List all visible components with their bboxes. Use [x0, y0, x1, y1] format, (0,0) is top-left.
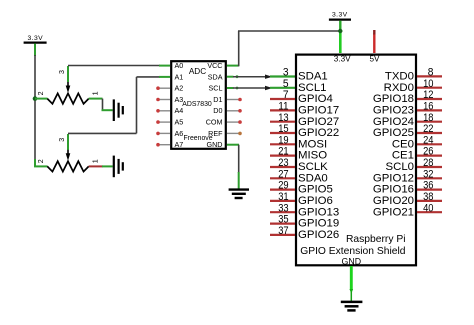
svg-text:A0: A0 [175, 61, 184, 70]
pin 7 GPIO4 [270, 89, 333, 105]
pin 21 MISO [270, 146, 327, 162]
pin 26 CE1 [392, 146, 442, 162]
svg-text:GPIO5: GPIO5 [298, 184, 333, 196]
svg-text:33: 33 [278, 202, 288, 214]
svg-text:A2: A2 [175, 84, 184, 93]
svg-text:24: 24 [423, 134, 433, 146]
pin A0 [175, 61, 184, 70]
svg-text:26: 26 [423, 146, 433, 158]
pin 28 SCL0 [386, 157, 443, 173]
wire shield GND to ground [350, 266, 354, 301]
svg-text:ADC: ADC [189, 67, 206, 76]
node junction on 3.3V rail [33, 96, 38, 101]
svg-text:GPIO12: GPIO12 [373, 172, 414, 184]
pin A3 [156, 95, 183, 104]
svg-text:38: 38 [423, 191, 433, 203]
wire pot1 pin1 to ground [89, 99, 113, 111]
svg-text:GPIO19: GPIO19 [298, 218, 339, 230]
svg-text:GPIO4: GPIO4 [298, 93, 333, 105]
svg-text:SDA0: SDA0 [298, 172, 328, 184]
svg-text:A4: A4 [175, 106, 184, 115]
svg-text:5V: 5V [369, 55, 380, 64]
svg-text:28: 28 [423, 157, 433, 169]
svg-text:GPIO17: GPIO17 [298, 105, 339, 117]
svg-text:COM: COM [206, 118, 223, 127]
pin 10 RXD0 [384, 78, 442, 94]
wire pot2 wiper to ADC A1 [68, 77, 170, 150]
svg-text:GPIO23: GPIO23 [373, 105, 414, 117]
wire 5V stub (unconnected) [373, 30, 375, 53]
svg-text:MISO: MISO [298, 150, 327, 162]
ground (shield) [341, 302, 363, 311]
svg-text:A7: A7 [175, 140, 184, 149]
pin 19 MOSI [270, 134, 327, 150]
wire pot1 wiper to ADC A0 [68, 66, 170, 83]
svg-text:SCL0: SCL0 [386, 161, 415, 173]
pin 35 GPIO19 [270, 214, 339, 230]
svg-text:GPIO18: GPIO18 [373, 93, 414, 105]
wire ADC VCC to 3.3V junction above shield [227, 31, 340, 66]
svg-text:D1: D1 [213, 95, 222, 104]
svg-text:GPIO25: GPIO25 [373, 127, 414, 139]
svg-text:GPIO27: GPIO27 [298, 116, 339, 128]
svg-text:1: 1 [91, 91, 100, 95]
pin 33 GPIO13 [270, 202, 339, 218]
wire junction to pot1 pin 2 [35, 98, 48, 100]
potentiometer R1 (top) [36, 70, 100, 104]
svg-text:A6: A6 [175, 129, 184, 138]
svg-text:TXD0: TXD0 [385, 71, 414, 83]
pin SCL [209, 84, 223, 93]
svg-text:D0: D0 [213, 106, 222, 115]
svg-text:13: 13 [278, 112, 288, 124]
wire ADC SCL to shield SCL1 [227, 86, 295, 90]
svg-text:40: 40 [423, 202, 433, 214]
power symbol 3.3V (left) [24, 35, 47, 43]
svg-text:GPIO16: GPIO16 [373, 184, 414, 196]
svg-text:5: 5 [283, 78, 289, 90]
pin 38 GPIO20 [373, 191, 442, 207]
pin 31 GPIO6 [270, 191, 333, 207]
svg-text:7: 7 [283, 89, 289, 101]
svg-text:SCL: SCL [209, 84, 223, 93]
pin 15 GPIO22 [270, 123, 339, 139]
ground (ADC) [229, 190, 249, 198]
svg-text:SDA: SDA [208, 72, 223, 81]
svg-text:A3: A3 [175, 95, 184, 104]
IC U1 ADS7830 ADC body [171, 61, 226, 149]
svg-text:GPIO21: GPIO21 [373, 206, 414, 218]
pin A6 [156, 129, 183, 138]
svg-text:3: 3 [57, 138, 66, 142]
pin 11 GPIO17 [270, 101, 339, 117]
pin 5 SCL1 [283, 78, 327, 94]
pin A4 [156, 106, 183, 115]
svg-text:31: 31 [278, 191, 288, 203]
node junction 3.3V above shield [338, 29, 342, 33]
svg-text:16: 16 [423, 101, 433, 113]
wire 3.3V rail down to pot2 [34, 44, 48, 167]
svg-text:SDA1: SDA1 [298, 71, 328, 83]
svg-text:VCC: VCC [207, 61, 222, 70]
svg-text:2: 2 [36, 91, 45, 95]
pin GND [207, 140, 223, 149]
wire ADC GND to ground [227, 145, 239, 189]
svg-text:CE0: CE0 [392, 138, 414, 150]
svg-text:GPIO22: GPIO22 [298, 127, 339, 139]
svg-text:A5: A5 [175, 118, 184, 127]
svg-text:15: 15 [278, 123, 288, 135]
pin 27 SDA0 [270, 168, 328, 184]
pin D1 [213, 95, 242, 104]
svg-text:35: 35 [278, 214, 288, 226]
svg-text:21: 21 [278, 146, 288, 158]
svg-text:GPIO20: GPIO20 [373, 195, 414, 207]
svg-text:GPIO6: GPIO6 [298, 195, 333, 207]
svg-text:REF: REF [208, 129, 223, 138]
svg-text:10: 10 [423, 78, 433, 90]
pin 23 SCLK [270, 157, 328, 173]
svg-text:GPIO13: GPIO13 [298, 206, 339, 218]
svg-text:11: 11 [278, 101, 288, 113]
pin REF [208, 129, 242, 138]
wire pot2 pin1 to ground (red) [89, 165, 113, 167]
svg-text:1: 1 [91, 159, 100, 163]
svg-text:23: 23 [278, 157, 288, 169]
wire 3.3V symbol to shield 3.3V pin [339, 21, 341, 53]
svg-text:GND: GND [342, 256, 362, 266]
svg-text:3: 3 [57, 70, 66, 74]
pin 24 CE0 [392, 134, 442, 150]
pin 12 GPIO18 [373, 89, 442, 105]
power symbol 3.3V (above shield) [329, 12, 351, 20]
svg-text:GND: GND [207, 140, 223, 149]
svg-text:36: 36 [423, 180, 433, 192]
pin A1 [175, 72, 184, 81]
ground (pot2) [114, 156, 123, 178]
svg-text:18: 18 [423, 112, 433, 124]
svg-text:3.3V: 3.3V [332, 12, 348, 19]
svg-text:SCLK: SCLK [298, 161, 328, 173]
pin 22 GPIO25 [373, 123, 442, 139]
svg-text:12: 12 [423, 89, 433, 101]
pin 29 GPIO5 [270, 180, 333, 196]
pin 13 GPIO27 [270, 112, 339, 128]
svg-text:3: 3 [283, 67, 289, 79]
svg-text:MOSI: MOSI [298, 138, 327, 150]
pin 40 GPIO21 [373, 202, 442, 218]
svg-text:CE1: CE1 [392, 150, 414, 162]
svg-text:SCL1: SCL1 [298, 82, 327, 94]
pin 8 TXD0 [385, 67, 442, 83]
pin SDA [208, 72, 223, 81]
svg-text:3.3V: 3.3V [28, 35, 44, 42]
svg-text:29: 29 [278, 180, 288, 192]
pin 36 GPIO16 [373, 180, 442, 196]
wire ADC SDA to shield SDA1 [227, 75, 295, 79]
svg-text:3.3V: 3.3V [334, 55, 351, 64]
svg-text:8: 8 [428, 67, 434, 79]
svg-text:37: 37 [278, 225, 288, 237]
svg-text:GPIO24: GPIO24 [373, 116, 414, 128]
svg-text:27: 27 [278, 168, 288, 180]
svg-text:RXD0: RXD0 [384, 82, 414, 94]
pin 32 GPIO12 [373, 168, 442, 184]
pin A7 [156, 140, 183, 149]
pin 18 GPIO24 [373, 112, 442, 128]
svg-text:ADS7830: ADS7830 [182, 101, 212, 108]
svg-text:2: 2 [36, 159, 45, 163]
pin 3 SDA1 [283, 67, 328, 83]
potentiometer R2 (bottom) [36, 138, 100, 172]
pin D0 [213, 106, 242, 115]
ground (pot1) [114, 99, 123, 121]
svg-text:A1: A1 [175, 72, 184, 81]
svg-text:19: 19 [278, 134, 288, 146]
pin VCC [207, 61, 222, 70]
pin 37 GPIO26 [270, 225, 339, 241]
Raspberry Pi GPIO Extension Shield body [296, 55, 416, 267]
svg-text:GPIO26: GPIO26 [298, 229, 339, 241]
svg-text:22: 22 [423, 123, 433, 135]
pin 16 GPIO23 [373, 101, 442, 117]
svg-text:Raspberry Pi: Raspberry Pi [346, 234, 406, 245]
pin A5 [156, 118, 183, 127]
svg-text:32: 32 [423, 168, 433, 180]
pin A2 [156, 84, 183, 93]
pin COM [206, 118, 242, 127]
